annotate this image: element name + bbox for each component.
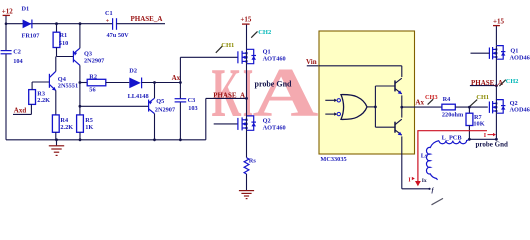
transistor Q3 2N2907	[57, 24, 105, 115]
svg-text:Q2: Q2	[263, 117, 271, 124]
resistor R4 2.2K	[52, 115, 73, 140]
svg-text:C3: C3	[188, 97, 196, 104]
svg-text:Ix: Ix	[422, 178, 427, 184]
svg-text:2.2K: 2.2K	[37, 97, 50, 104]
svg-text:CH1: CH1	[221, 42, 234, 49]
svg-text:Ax: Ax	[415, 99, 424, 107]
probe CH2	[251, 29, 271, 38]
svg-text:CH3: CH3	[425, 94, 438, 101]
node PHASE_A top	[131, 15, 163, 23]
svg-text:Ls: Ls	[421, 153, 428, 160]
svg-text:10K: 10K	[473, 120, 484, 127]
svg-text:CH1: CH1	[476, 94, 489, 101]
wire red current loop	[415, 131, 496, 187]
transistor Q5 2N2907	[79, 83, 176, 140]
ground left	[49, 140, 64, 156]
svg-text:AOD464: AOD464	[510, 54, 530, 61]
IC box MC33035	[319, 31, 415, 163]
inductor Ls	[421, 141, 439, 180]
svg-text:Q1: Q1	[263, 48, 271, 55]
svg-text:47u 50V: 47u 50V	[107, 32, 130, 39]
svg-text:Vin: Vin	[306, 58, 317, 66]
wire Q1 source to phase node	[246, 64, 248, 99]
node PHASE_A mid	[206, 92, 248, 100]
node Vin	[306, 58, 402, 66]
diode D1 FR107	[22, 6, 40, 40]
transistor upper totem	[395, 66, 402, 107]
svg-text:103: 103	[188, 105, 197, 112]
gate U1 nor	[325, 95, 375, 120]
capacitor C3 103	[175, 83, 198, 140]
probe CH3	[425, 94, 438, 105]
node PHASE_A right	[470, 59, 503, 100]
svg-text:220ohm: 220ohm	[442, 111, 464, 118]
svg-text:PHASE_A: PHASE_A	[131, 15, 163, 23]
svg-text:56: 56	[89, 87, 95, 94]
wire top rail	[5, 22, 113, 25]
svg-text:I: I	[484, 133, 487, 139]
svg-text:2.2K: 2.2K	[60, 124, 73, 131]
power +15 right	[493, 17, 504, 45]
bottom rail	[6, 98, 206, 141]
svg-text:LL4148: LL4148	[128, 93, 149, 100]
wire gate Q1	[180, 57, 238, 82]
svg-text:R5: R5	[85, 117, 93, 124]
svg-text:R4: R4	[443, 96, 452, 103]
inductor L_PCB	[439, 135, 469, 144]
svg-text:2N5551: 2N5551	[58, 83, 78, 90]
node Ax	[172, 74, 181, 82]
svg-text:C1: C1	[105, 10, 113, 17]
svg-text:Rs: Rs	[249, 157, 257, 164]
svg-text:C2: C2	[13, 48, 21, 55]
capacitor C2 104	[1, 24, 24, 140]
svg-text:PHASE_A: PHASE_A	[471, 79, 503, 87]
probe slash bottom	[432, 198, 444, 204]
svg-text:2N2907: 2N2907	[155, 106, 175, 113]
resistor R7 10K	[466, 107, 485, 139]
mosfet Q1 AOT460	[238, 48, 286, 63]
svg-text:2N2907: 2N2907	[84, 57, 104, 64]
diode D2 LL4148	[128, 68, 182, 101]
mosfet Q1 AOD464	[471, 46, 530, 62]
svg-text:R2: R2	[89, 73, 97, 80]
svg-text:D1: D1	[22, 6, 30, 13]
resistor R1 510	[53, 24, 68, 57]
power +12	[2, 7, 13, 23]
svg-text:AOT460: AOT460	[263, 56, 286, 63]
resistor R5 1K	[77, 115, 94, 140]
power +15 left	[240, 15, 251, 49]
svg-text:probe Gnd: probe Gnd	[255, 79, 293, 88]
svg-text:Ax: Ax	[172, 74, 181, 82]
capacitor C1 47u 50V	[105, 10, 165, 39]
node Axd	[13, 104, 31, 114]
transistor Q4 2N5551	[32, 57, 78, 115]
node Ax right	[402, 99, 442, 108]
watermark KIA	[212, 55, 320, 132]
svg-text:+15: +15	[493, 17, 504, 25]
svg-text:I: I	[408, 178, 411, 184]
svg-text:+: +	[106, 19, 110, 25]
svg-text:1K: 1K	[85, 124, 93, 131]
svg-text:probe Gnd: probe Gnd	[476, 140, 508, 148]
probe CH1	[216, 42, 235, 53]
wire Q2 source to probe gnd rail	[468, 113, 498, 141]
svg-text:FR107: FR107	[22, 33, 40, 40]
resistor R3 2.2K	[29, 82, 50, 104]
text probe Gnd left	[255, 79, 293, 88]
svg-text:104: 104	[13, 58, 23, 65]
svg-text:CH2: CH2	[506, 78, 519, 85]
resistor R2 56	[79, 73, 130, 93]
transistor lower totem	[395, 106, 403, 136]
wire base splitter	[374, 86, 395, 127]
label I arrow bottom	[408, 177, 427, 184]
probe CH2 right	[499, 78, 518, 86]
text probe Gnd right	[476, 140, 508, 148]
ground right of left section	[239, 174, 254, 199]
svg-text:f: f	[432, 187, 435, 194]
svg-text:CH2: CH2	[258, 29, 271, 36]
mosfet Q2 AOD464	[489, 100, 530, 114]
wire Vin inside box	[319, 65, 402, 67]
wire lower emitter down	[402, 136, 435, 193]
svg-text:510: 510	[59, 40, 68, 47]
wire Q2 gate stub	[214, 123, 238, 125]
svg-text:Axd: Axd	[14, 107, 27, 115]
svg-text:D2: D2	[129, 68, 137, 75]
svg-text:+15: +15	[240, 15, 251, 23]
resistor Rs	[244, 130, 256, 174]
svg-text:R4: R4	[60, 117, 69, 124]
svg-text:L_PCB: L_PCB	[442, 135, 463, 142]
mosfet Q2 AOT460	[238, 98, 286, 131]
svg-text:+12: +12	[2, 7, 13, 15]
probe CH1 right	[470, 94, 489, 106]
resistor R4 220ohm	[442, 96, 488, 119]
svg-text:AOT460: AOT460	[263, 125, 286, 132]
svg-text:AOD464: AOD464	[510, 107, 530, 114]
svg-text:MC33035: MC33035	[320, 156, 346, 163]
svg-text:R1: R1	[60, 32, 68, 39]
svg-text:Q5: Q5	[156, 98, 164, 105]
